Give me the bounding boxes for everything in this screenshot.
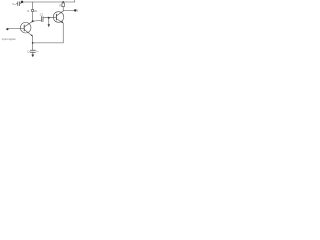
wire R1 top bbox=[32, 2, 34, 9]
wire bottom rail bbox=[33, 42, 64, 44]
transistor Q1 emitter arrowhead bbox=[31, 34, 33, 36]
node output terminal bbox=[74, 9, 77, 12]
wire emitter Q2 down bbox=[62, 23, 64, 43]
capacitor C2 left bar bbox=[41, 17, 43, 22]
wire CE to ground bbox=[32, 52, 34, 54]
wire emitter Q1 down bbox=[32, 36, 34, 50]
wire output bbox=[63, 10, 75, 12]
wire base Q2 bbox=[53, 16, 56, 18]
transistor Q2 emitter arrowhead bbox=[61, 21, 63, 23]
transistor Q1 base bar bbox=[23, 25, 25, 31]
ground bbox=[31, 55, 34, 58]
transistor Q2 emitter lead bbox=[56, 19, 63, 23]
arrow bias stub bbox=[48, 24, 50, 27]
resistor R2 (collector load Q2) bbox=[62, 3, 64, 7]
capacitor CE top plate bbox=[30, 49, 35, 51]
svg-text:CE: CE bbox=[27, 50, 31, 53]
node base Q2 junction bbox=[48, 17, 50, 19]
svg-text:R1: R1 bbox=[34, 10, 38, 13]
wire top supply rail bbox=[22, 1, 75, 3]
node input terminal bbox=[6, 28, 8, 30]
capacitor CE bottom plate bbox=[30, 51, 35, 53]
resistor R1 (collector load Q1) bbox=[32, 9, 34, 11]
svg-text:C2: C2 bbox=[40, 14, 44, 17]
node collector Q1 (junction dot) bbox=[32, 20, 34, 22]
transistor Q2 base bar bbox=[55, 14, 57, 20]
transistor Q1 circle bbox=[20, 22, 31, 33]
capacitor C2 right bar bbox=[42, 17, 44, 22]
wire bias stub down bbox=[48, 18, 50, 25]
wire collector Q2 up bbox=[62, 7, 64, 11]
svg-text:1u: 1u bbox=[36, 51, 39, 53]
wire interstage left bbox=[33, 20, 41, 23]
Vcc terminal tick bbox=[74, 0, 76, 2]
transistor Q1 emitter lead bbox=[24, 29, 32, 36]
svg-text:Vin: Vin bbox=[12, 2, 17, 6]
wire cap to rail bbox=[20, 2, 22, 4]
transistor Q2 circle bbox=[53, 12, 64, 23]
svg-text:V: V bbox=[77, 11, 79, 13]
svg-text:R: R bbox=[27, 11, 29, 13]
wire R1 bottom to collector node bbox=[32, 12, 34, 22]
node emitter rail junction bbox=[32, 42, 34, 44]
svg-text:input signal: input signal bbox=[2, 37, 16, 41]
capacitor C1 (input coupling) bbox=[17, 2, 19, 6]
transistor Q2 collector lead bbox=[56, 11, 63, 16]
node rail left (junction dot) bbox=[21, 1, 24, 4]
wire interstage right bbox=[44, 16, 54, 19]
wire input stub bbox=[15, 3, 18, 5]
transistor Q1 collector lead bbox=[24, 21, 32, 27]
node rail R2 junction bbox=[62, 1, 64, 3]
wire base Q1 bbox=[8, 28, 24, 30]
